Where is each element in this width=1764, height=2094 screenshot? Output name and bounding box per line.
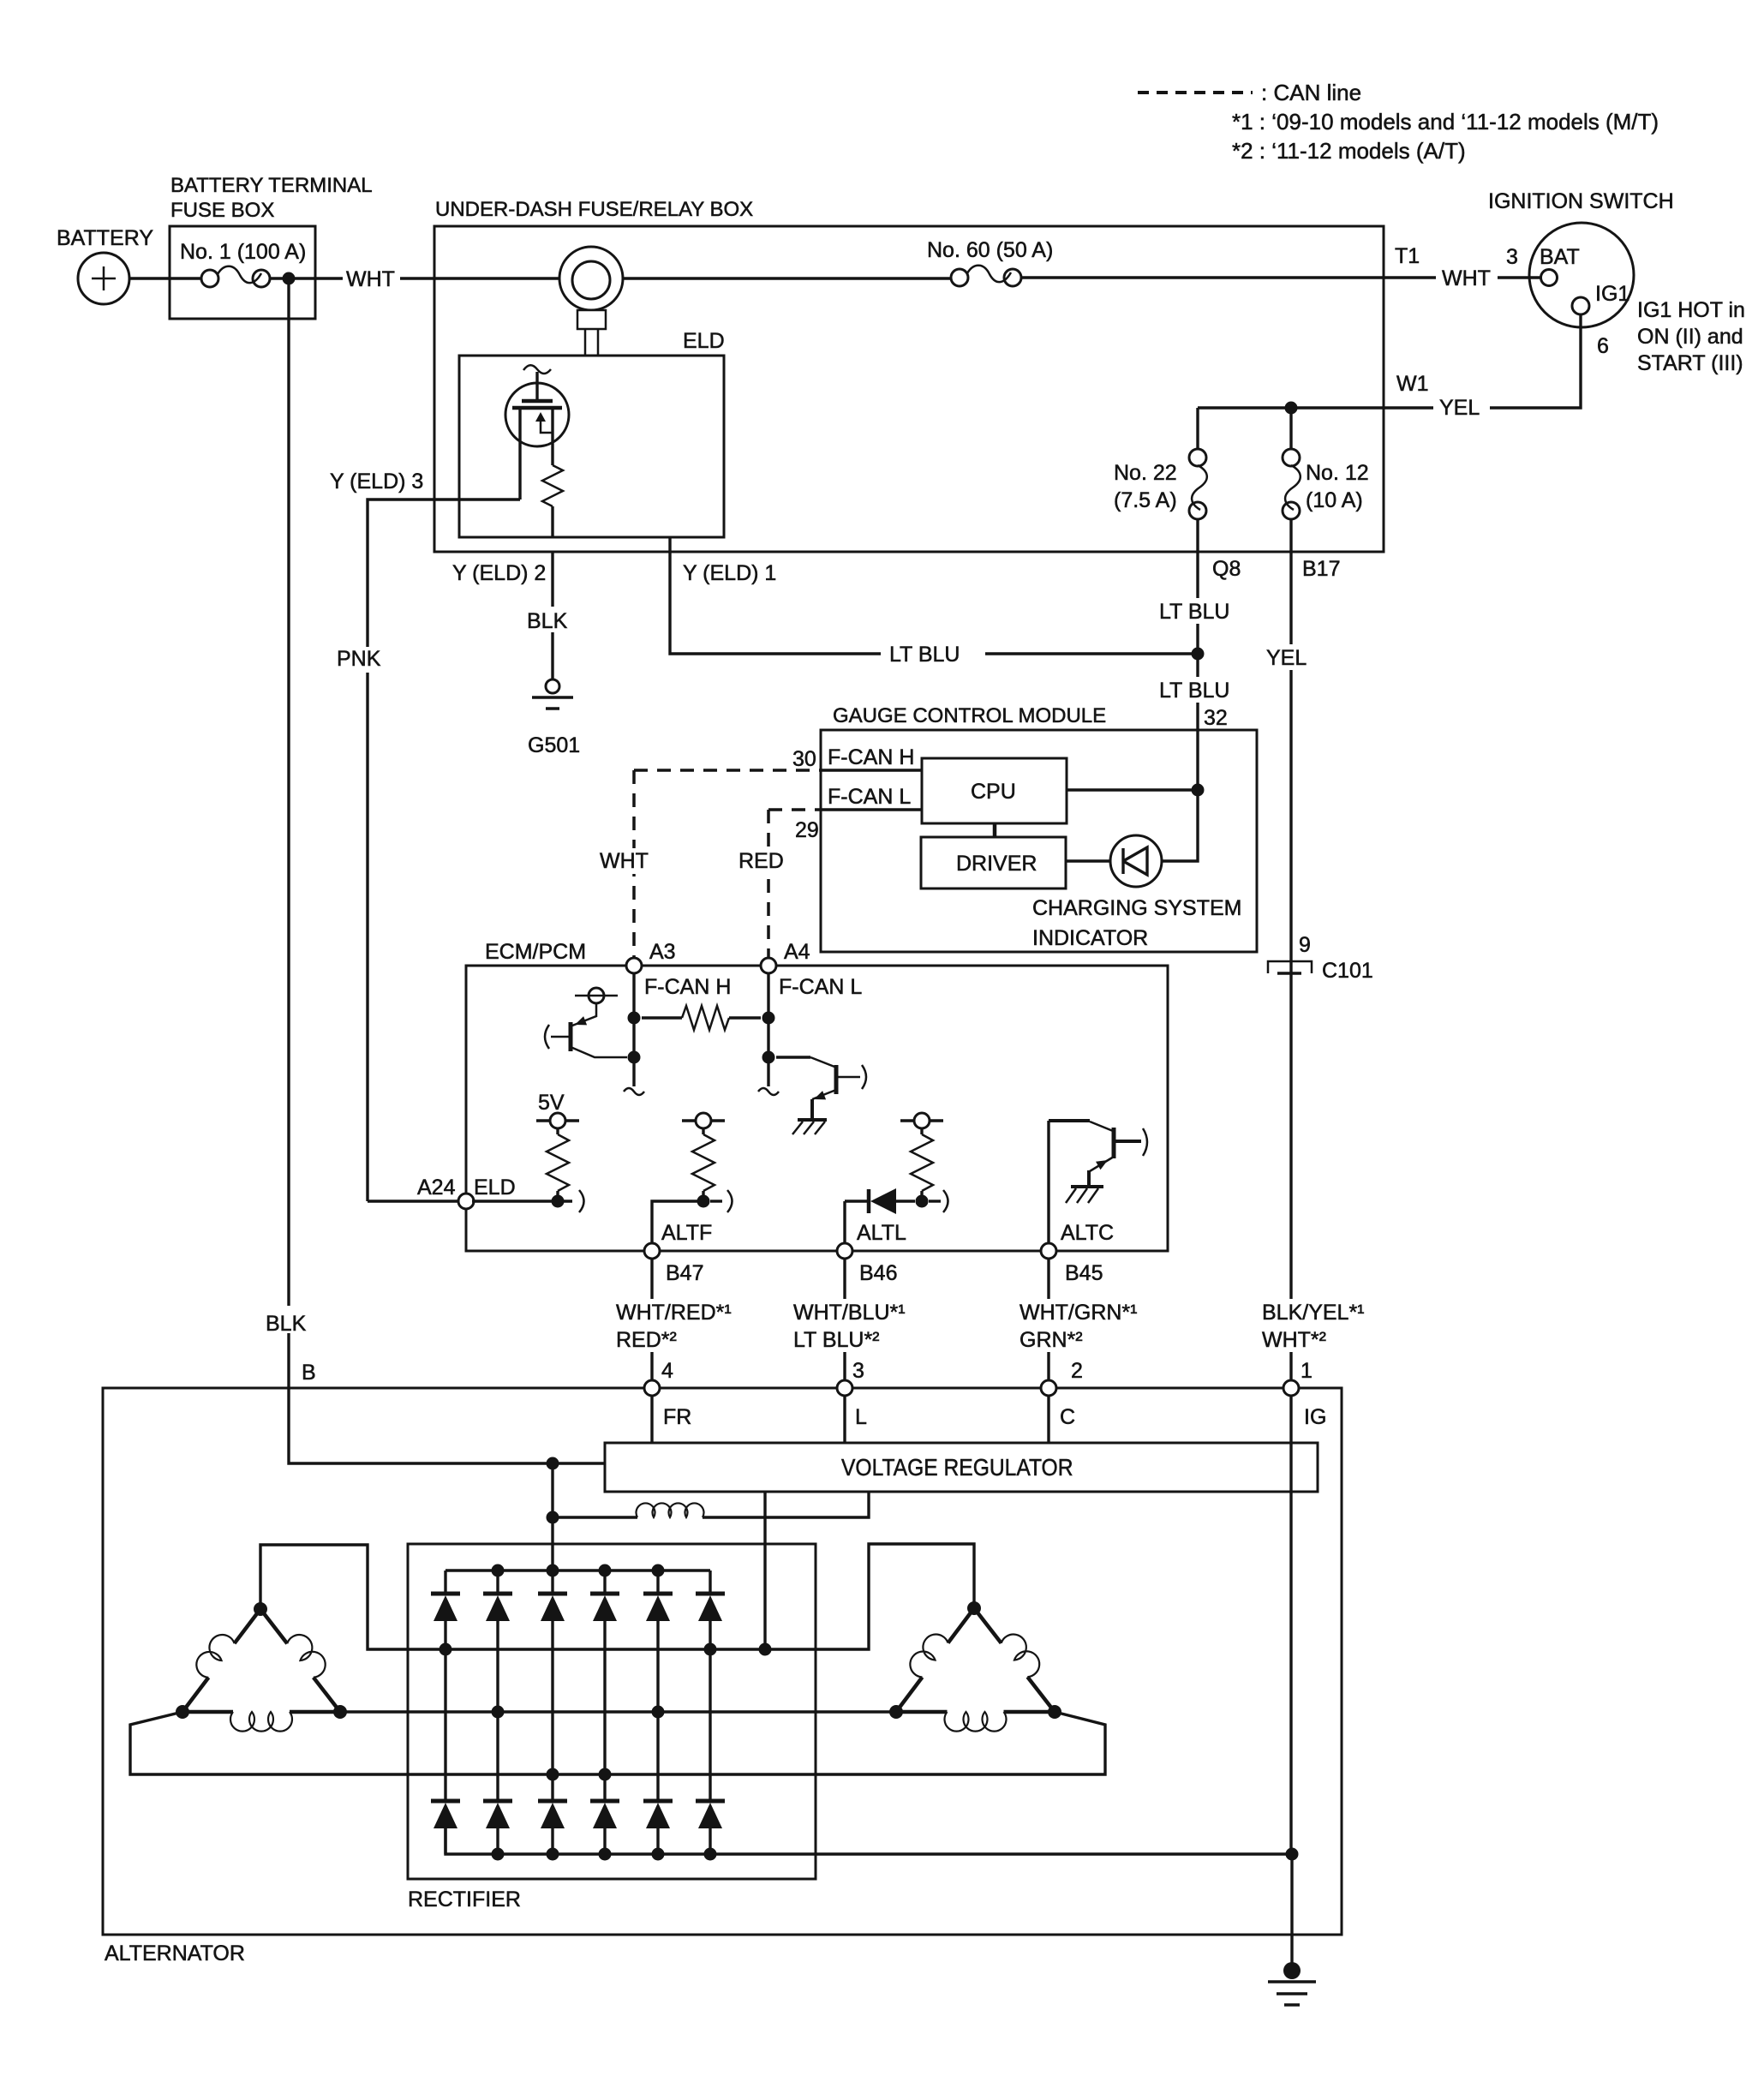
- svg-text:9: 9: [1299, 933, 1311, 957]
- svg-text:BLK: BLK: [266, 1312, 307, 1336]
- svg-text:F-CAN L: F-CAN L: [779, 975, 862, 999]
- svg-text:YEL: YEL: [1266, 646, 1307, 670]
- svg-text:F-CAN H: F-CAN H: [644, 975, 731, 999]
- svg-text:CHARGING SYSTEM: CHARGING SYSTEM: [1032, 896, 1241, 920]
- svg-text:IG1: IG1: [1595, 282, 1629, 306]
- svg-text:WHT: WHT: [1442, 266, 1491, 290]
- svg-text:START (III): START (III): [1637, 351, 1743, 375]
- svg-text:32: 32: [1204, 706, 1228, 730]
- svg-text:INDICATOR: INDICATOR: [1032, 926, 1148, 950]
- svg-text:29: 29: [795, 818, 819, 842]
- svg-text:*2 : ‘11-12 models (A/T): *2 : ‘11-12 models (A/T): [1232, 138, 1466, 164]
- svg-text:T1: T1: [1395, 244, 1420, 268]
- svg-text:6: 6: [1597, 334, 1609, 358]
- svg-text:WHT: WHT: [600, 849, 649, 873]
- svg-text:B46: B46: [859, 1261, 897, 1285]
- svg-text:BATTERY: BATTERY: [57, 226, 153, 250]
- svg-text:A24: A24: [417, 1176, 456, 1200]
- svg-text:L: L: [855, 1405, 867, 1429]
- svg-text:G501: G501: [528, 733, 580, 757]
- svg-text:: CAN line: : CAN line: [1261, 80, 1361, 105]
- svg-text:UNDER-DASH FUSE/RELAY BOX: UNDER-DASH FUSE/RELAY BOX: [435, 198, 753, 221]
- svg-text:(10 A): (10 A): [1306, 488, 1363, 512]
- svg-text:Y (ELD) 1: Y (ELD) 1: [683, 561, 776, 585]
- svg-text:Y (ELD) 3: Y (ELD) 3: [330, 470, 423, 494]
- svg-text:IG1 HOT in: IG1 HOT in: [1637, 298, 1745, 322]
- svg-text:Q8: Q8: [1212, 557, 1241, 581]
- svg-text:A3: A3: [649, 940, 676, 964]
- svg-text:ALTC: ALTC: [1061, 1221, 1114, 1245]
- svg-text:LT BLU: LT BLU: [889, 643, 960, 667]
- svg-text:ECM/PCM: ECM/PCM: [485, 940, 586, 964]
- svg-text:F-CAN L: F-CAN L: [828, 785, 911, 809]
- svg-text:5V: 5V: [538, 1091, 565, 1115]
- svg-text:B: B: [302, 1361, 316, 1385]
- svg-text:IG: IG: [1304, 1405, 1326, 1429]
- svg-text:GAUGE CONTROL MODULE: GAUGE CONTROL MODULE: [833, 704, 1106, 727]
- svg-text:PNK: PNK: [337, 647, 381, 671]
- svg-text:3: 3: [1506, 245, 1518, 269]
- svg-text:BAT: BAT: [1540, 245, 1580, 269]
- svg-text:ALTERNATOR: ALTERNATOR: [105, 1941, 245, 1965]
- svg-text:30: 30: [792, 747, 816, 771]
- svg-text:VOLTAGE REGULATOR: VOLTAGE REGULATOR: [841, 1454, 1073, 1481]
- svg-text:No. 22: No. 22: [1114, 461, 1177, 485]
- svg-text:BLK/YEL*¹: BLK/YEL*¹: [1262, 1301, 1365, 1325]
- svg-text:B45: B45: [1065, 1261, 1103, 1285]
- svg-text:W1: W1: [1396, 372, 1429, 396]
- svg-text:No. 1 (100 A): No. 1 (100 A): [180, 240, 306, 264]
- svg-text:F-CAN H: F-CAN H: [828, 745, 914, 769]
- svg-text:C101: C101: [1322, 959, 1373, 983]
- svg-text:No. 60 (50 A): No. 60 (50 A): [927, 238, 1053, 262]
- svg-text:RECTIFIER: RECTIFIER: [408, 1888, 521, 1912]
- svg-text:2: 2: [1071, 1359, 1083, 1383]
- svg-text:WHT*²: WHT*²: [1262, 1328, 1326, 1352]
- svg-text:LT BLU*²: LT BLU*²: [793, 1328, 880, 1352]
- svg-text:LT BLU: LT BLU: [1159, 679, 1229, 703]
- svg-text:FR: FR: [663, 1405, 691, 1429]
- svg-text:(7.5 A): (7.5 A): [1114, 488, 1177, 512]
- svg-text:1: 1: [1301, 1359, 1313, 1383]
- svg-text:CPU: CPU: [971, 780, 1016, 804]
- svg-text:3: 3: [852, 1359, 864, 1383]
- svg-text:DRIVER: DRIVER: [956, 852, 1037, 876]
- svg-text:ALTF: ALTF: [661, 1221, 712, 1245]
- svg-text:A4: A4: [784, 940, 810, 964]
- svg-text:4: 4: [661, 1359, 673, 1383]
- svg-text:WHT/GRN*¹: WHT/GRN*¹: [1020, 1301, 1137, 1325]
- svg-text:GRN*²: GRN*²: [1020, 1328, 1083, 1352]
- svg-text:FUSE BOX: FUSE BOX: [170, 199, 274, 222]
- svg-text:ELD: ELD: [474, 1176, 516, 1200]
- svg-text:IGNITION SWITCH: IGNITION SWITCH: [1488, 189, 1674, 213]
- svg-text:B17: B17: [1302, 557, 1340, 581]
- svg-text:WHT: WHT: [346, 267, 395, 291]
- svg-text:*1 : ‘09-10 models and ‘11-12: *1 : ‘09-10 models and ‘11-12 models (M/…: [1232, 109, 1659, 135]
- svg-text:RED*²: RED*²: [616, 1328, 677, 1352]
- svg-text:WHT/RED*¹: WHT/RED*¹: [616, 1301, 732, 1325]
- svg-text:ALTL: ALTL: [857, 1221, 906, 1245]
- svg-text:No. 12: No. 12: [1306, 461, 1369, 485]
- svg-text:YEL: YEL: [1439, 396, 1480, 420]
- svg-text:ELD: ELD: [683, 329, 725, 353]
- svg-text:BATTERY TERMINAL: BATTERY TERMINAL: [170, 174, 373, 197]
- svg-text:Y (ELD) 2: Y (ELD) 2: [452, 561, 546, 585]
- svg-text:BLK: BLK: [527, 609, 568, 633]
- svg-text:WHT/BLU*¹: WHT/BLU*¹: [793, 1301, 906, 1325]
- svg-text:LT BLU: LT BLU: [1159, 600, 1229, 624]
- svg-text:B47: B47: [666, 1261, 703, 1285]
- svg-text:ON (II) and: ON (II) and: [1637, 325, 1743, 349]
- svg-text:C: C: [1060, 1405, 1075, 1429]
- svg-text:RED: RED: [738, 849, 784, 873]
